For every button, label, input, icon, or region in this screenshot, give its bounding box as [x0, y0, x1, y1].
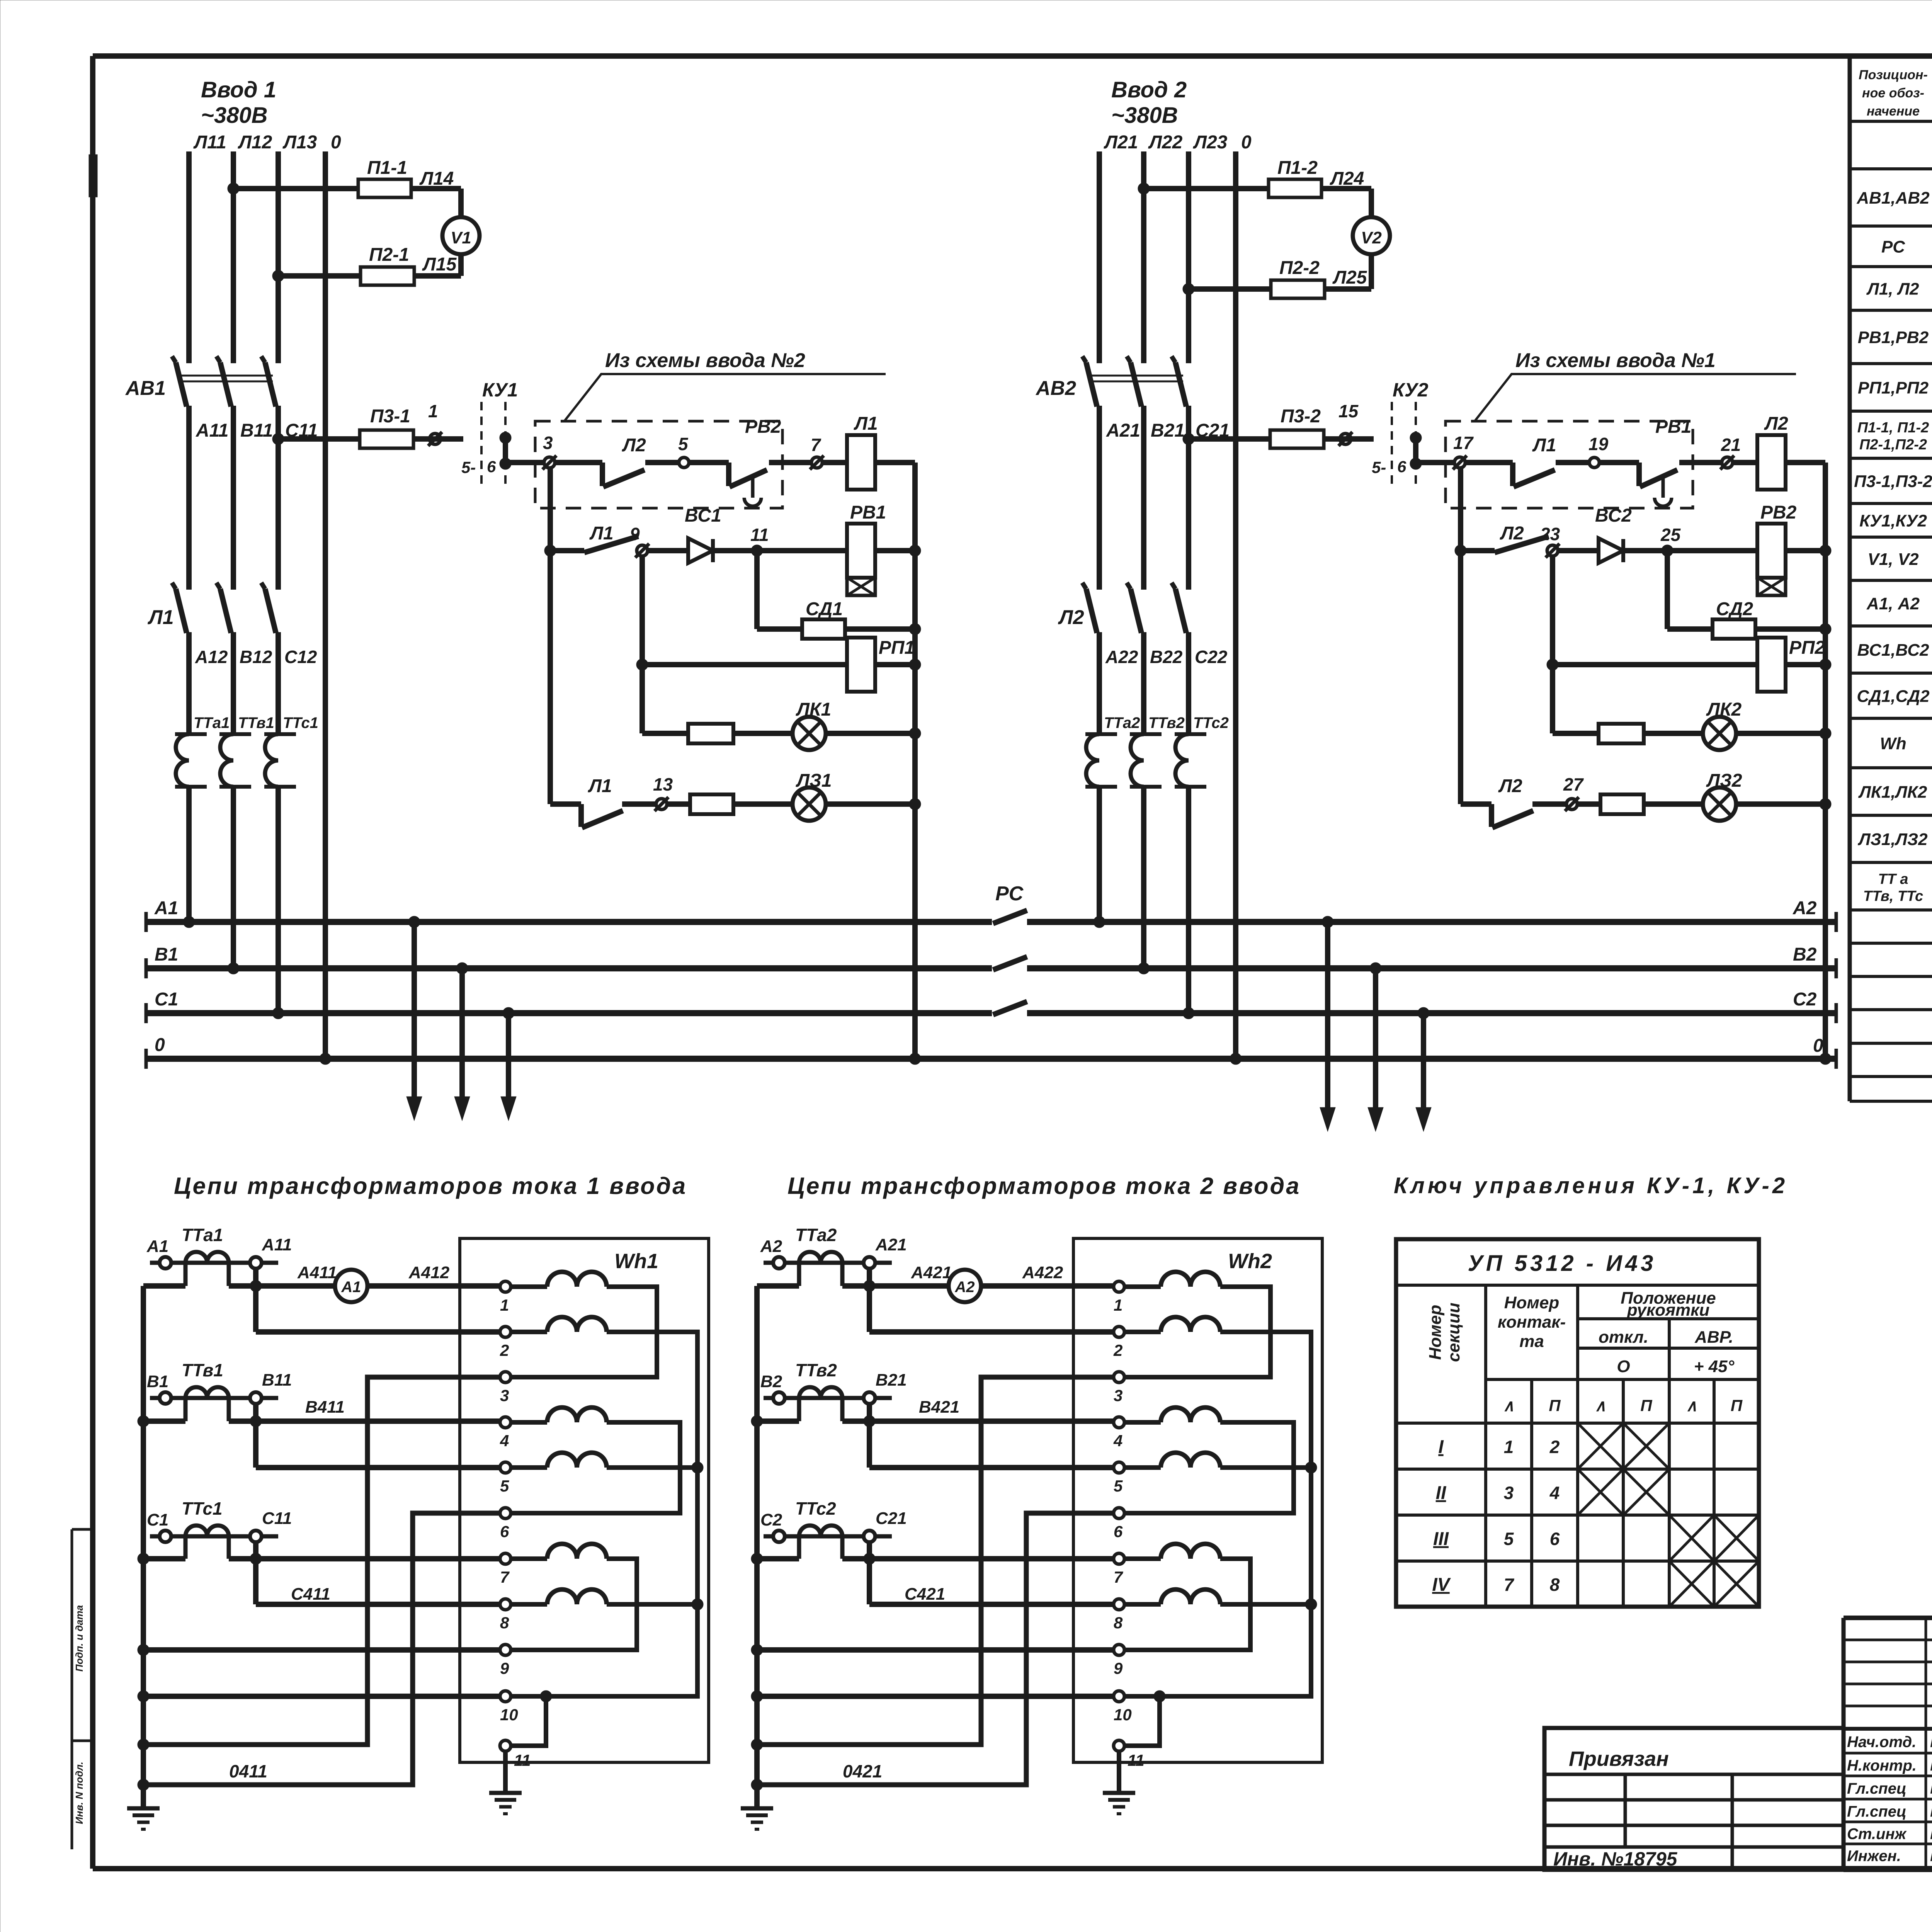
svg-text:2: 2: [500, 1341, 509, 1359]
callout Из схемы ввода №2: [565, 374, 886, 420]
svg-text:3: 3: [543, 433, 553, 453]
svg-text:В12: В12: [240, 647, 272, 667]
svg-text:СД2: СД2: [1716, 599, 1753, 619]
svg-text:РВ2: РВ2: [1760, 502, 1797, 523]
svg-text:Л15: Л15: [422, 254, 457, 275]
T3 return wire: [143, 1377, 500, 1745]
svg-text:Л1: Л1: [147, 606, 174, 629]
svg-text:27: 27: [1563, 774, 1584, 794]
svg-text:П3-2: П3-2: [1281, 406, 1321, 427]
svg-text:ВС2: ВС2: [1595, 505, 1632, 526]
svg-text:КУ1,КУ2: КУ1,КУ2: [1859, 512, 1927, 531]
svg-text:АВ1: АВ1: [125, 377, 166, 400]
fuse П3-1 branch wire: [272, 433, 284, 445]
svg-text:Л22: Л22: [1148, 132, 1183, 153]
fuse П1-1 branch wire: [228, 183, 239, 194]
svg-text:11: 11: [750, 525, 769, 545]
svg-text:С411: С411: [291, 1585, 330, 1604]
fuse П2-2: [1271, 280, 1325, 298]
svg-text:Л23: Л23: [1193, 132, 1228, 153]
voltage tap wire: [867, 1269, 872, 1332]
wire А421: [842, 1283, 949, 1289]
vertical contact 9 down: [639, 556, 645, 733]
svg-text:А412: А412: [408, 1263, 450, 1282]
svg-text:Королева: Королева: [1930, 1824, 1932, 1843]
svg-text:начение: начение: [1867, 104, 1920, 119]
svg-text:А421: А421: [911, 1263, 952, 1282]
vertical node 11 down: [754, 551, 760, 629]
svg-text:А1, А2: А1, А2: [1866, 594, 1920, 613]
svg-text:Подп. и дата: Подп. и дата: [73, 1605, 85, 1672]
red lamp ЛК2 rung: [1553, 731, 1825, 736]
svg-text:Л2: Л2: [1500, 523, 1524, 544]
svg-text:6: 6: [1397, 457, 1406, 476]
svg-text:ТТв2: ТТв2: [795, 1360, 837, 1380]
svg-text:7: 7: [1114, 1568, 1123, 1586]
svg-text:Wh2: Wh2: [1228, 1250, 1272, 1273]
svg-text:РС: РС: [995, 883, 1024, 905]
svg-text:Из схемы ввода №2: Из схемы ввода №2: [605, 349, 805, 372]
svg-text:откл.: откл.: [1599, 1328, 1648, 1347]
fuse П2-1 branch wire: [272, 270, 284, 282]
svg-text:РВ1: РВ1: [850, 502, 886, 523]
svg-text:8: 8: [500, 1614, 509, 1632]
wire phase columns Ввод 1: [189, 151, 325, 1059]
junction dots columns to buses Ввод 1: [183, 916, 195, 928]
voltage tap wire: [867, 1542, 872, 1604]
svg-text:Нач.отд.: Нач.отд.: [1847, 1734, 1916, 1751]
svg-text:∧: ∧: [1686, 1396, 1698, 1415]
svg-text:7: 7: [811, 435, 821, 455]
svg-text:6: 6: [1114, 1522, 1123, 1541]
svg-text:Wh: Wh: [1880, 734, 1906, 753]
neutral bridge 10-11: [511, 1696, 546, 1746]
green lamp ЛЗ2 rung: [1461, 804, 1825, 827]
relay coil РП2 rung: [1547, 659, 1558, 670]
svg-text:Л25: Л25: [1332, 267, 1367, 288]
meter internal current loops: [511, 1287, 680, 1650]
T3 return wire: [757, 1377, 1114, 1745]
vertical contact 23 down: [1550, 556, 1555, 733]
svg-text:9: 9: [630, 524, 640, 544]
svg-text:РП2: РП2: [1789, 638, 1825, 658]
svg-text:В11: В11: [262, 1371, 292, 1389]
svg-text:АВР.: АВР.: [1694, 1328, 1733, 1347]
vertical node 25 down: [1665, 551, 1670, 629]
svg-text:Л12: Л12: [238, 132, 272, 153]
svg-text:ТТс2: ТТс2: [1193, 714, 1229, 731]
svg-text:П2-1: П2-1: [369, 245, 409, 265]
svg-text:А1: А1: [146, 1237, 168, 1256]
svg-text:11: 11: [1128, 1751, 1145, 1769]
privyazan table: [1544, 1728, 1844, 1870]
svg-text:V1: V1: [451, 228, 471, 247]
svg-text:РС: РС: [1881, 238, 1905, 257]
svg-text:Некрасов: Некрасов: [1930, 1756, 1932, 1775]
meter terminals: [500, 1281, 511, 1292]
svg-text:А2: А2: [954, 1279, 975, 1296]
svg-text:В421: В421: [919, 1398, 959, 1417]
relay coil РП1 rung: [636, 659, 648, 670]
svg-text:8: 8: [1114, 1614, 1123, 1632]
svg-text:П: П: [1731, 1396, 1743, 1415]
dashed box from other feeder: [1446, 421, 1693, 508]
resistor for lamp ЛЗ1: [690, 794, 733, 814]
svg-text:С1: С1: [147, 1510, 168, 1529]
wire В421: [842, 1418, 1119, 1424]
meter Wh2 box: [1073, 1238, 1322, 1762]
svg-text:П3-1,П3-2: П3-1,П3-2: [1854, 472, 1932, 491]
svg-text:ЛК1,ЛК2: ЛК1,ЛК2: [1858, 783, 1927, 802]
svg-text:1: 1: [1504, 1437, 1514, 1457]
svg-text:контак-: контак-: [1498, 1313, 1566, 1332]
svg-text:О: О: [1617, 1357, 1630, 1376]
svg-text:В1: В1: [155, 944, 178, 965]
meter ground: [1117, 1751, 1121, 1793]
svg-text:Л1: Л1: [854, 413, 878, 434]
svg-text:С21: С21: [876, 1509, 907, 1528]
svg-text:6: 6: [500, 1522, 509, 1541]
svg-text:УП 5312 - И43: УП 5312 - И43: [1468, 1251, 1656, 1276]
KU table grid: [1396, 1239, 1759, 1607]
voltage tap wire: [867, 1404, 872, 1468]
svg-text:0: 0: [155, 1035, 165, 1055]
green lamp ЛЗ1 rung: [550, 804, 915, 827]
svg-text:23: 23: [1540, 524, 1560, 544]
svg-text:РП1,РП2: РП1,РП2: [1858, 379, 1929, 398]
svg-text:8: 8: [1550, 1575, 1560, 1595]
callout Из схемы ввода №1: [1475, 374, 1796, 420]
svg-text:ЛЗ1,ЛЗ2: ЛЗ1,ЛЗ2: [1857, 830, 1928, 849]
title block grid: [1844, 1618, 1932, 1870]
wire С411: [229, 1556, 505, 1561]
svg-text:С1: С1: [155, 989, 178, 1010]
svg-text:ТТа2: ТТа2: [795, 1225, 837, 1245]
svg-text:Шумилов: Шумилов: [1930, 1802, 1932, 1821]
wire А411: [229, 1283, 335, 1289]
svg-text:П: П: [1640, 1396, 1652, 1415]
svg-text:Л1: Л1: [589, 523, 614, 544]
svg-text:П3-1: П3-1: [370, 406, 410, 427]
T9 wire to star: [757, 1647, 1114, 1653]
svg-text:Гл.спец: Гл.спец: [1847, 1803, 1906, 1820]
T6 return wire: [757, 1513, 1114, 1785]
svg-text:Номер: Номер: [1426, 1305, 1445, 1360]
svg-text:П1-2: П1-2: [1277, 158, 1318, 178]
svg-text:Гл.спец: Гл.спец: [1847, 1780, 1906, 1797]
svg-text:АВ1,АВ2: АВ1,АВ2: [1856, 189, 1930, 207]
svg-text:9: 9: [500, 1659, 509, 1677]
resistor for lamp ЛЗ2: [1600, 794, 1644, 814]
vertical from contact 17: [1458, 468, 1463, 804]
svg-text:А21: А21: [875, 1235, 907, 1254]
meter internal voltage bus: [511, 1332, 697, 1696]
svg-text:5: 5: [1504, 1529, 1514, 1549]
svg-text:ТТв2: ТТв2: [1148, 714, 1185, 731]
svg-text:РП1: РП1: [879, 638, 915, 658]
svg-text:АВ2: АВ2: [1035, 377, 1076, 400]
svg-text:Л1: Л1: [588, 776, 612, 796]
svg-text:КУ2: КУ2: [1393, 379, 1429, 401]
svg-text:1: 1: [428, 401, 438, 421]
svg-text:Ключ управления КУ-1, КУ-2: Ключ управления КУ-1, КУ-2: [1394, 1173, 1788, 1198]
svg-text:С11: С11: [262, 1509, 292, 1528]
meter Wh1 box: [460, 1238, 709, 1762]
svg-text:Л24: Л24: [1330, 168, 1364, 189]
svg-text:10: 10: [500, 1706, 518, 1724]
control rung 2 (rectifier ВС2): [1455, 545, 1466, 556]
svg-text:5: 5: [1114, 1477, 1123, 1495]
star wire vertical: [754, 1286, 760, 1808]
svg-text:А1: А1: [154, 898, 178, 918]
svg-text:А2: А2: [1793, 898, 1817, 918]
svg-text:Привязан: Привязан: [1569, 1747, 1669, 1770]
svg-text:та: та: [1519, 1332, 1544, 1351]
left margin line: [72, 155, 97, 1849]
svg-text:ТТв, ТТс: ТТв, ТТс: [1863, 888, 1923, 905]
svg-text:15: 15: [1338, 401, 1359, 421]
svg-text:9: 9: [1114, 1659, 1123, 1677]
meter terminals: [1114, 1281, 1124, 1292]
svg-text:∧: ∧: [1595, 1396, 1607, 1415]
meter internal voltage bus: [1124, 1332, 1311, 1696]
T10 wire to star: [757, 1694, 1114, 1699]
ground star: [127, 1808, 160, 1829]
svg-text:Из схемы ввода №1: Из схемы ввода №1: [1515, 349, 1716, 372]
svg-text:Номер: Номер: [1504, 1293, 1560, 1312]
voltmeter V1: [442, 217, 480, 254]
svg-text:10: 10: [1114, 1706, 1132, 1724]
svg-text:ТТ а: ТТ а: [1878, 871, 1908, 888]
svg-text:РВ1: РВ1: [1655, 417, 1691, 437]
voltage tap wire: [253, 1269, 259, 1332]
svg-text:5: 5: [500, 1477, 509, 1495]
control rung 1 wire: [1416, 463, 1825, 486]
control rung 2 (rectifier ВС1): [544, 545, 556, 556]
svg-text:КУ1: КУ1: [482, 379, 518, 401]
control rung 1 wire: [505, 463, 915, 486]
svg-text:V1, V2: V1, V2: [1867, 550, 1919, 569]
svg-text:4: 4: [1113, 1432, 1122, 1450]
svg-text:А2: А2: [760, 1237, 782, 1256]
svg-text:РВ1,РВ2: РВ1,РВ2: [1858, 328, 1929, 347]
svg-text:СД1: СД1: [806, 599, 843, 619]
svg-text:0: 0: [1813, 1036, 1823, 1056]
svg-text:Ст.инж: Ст.инж: [1847, 1826, 1907, 1843]
svg-text:7: 7: [500, 1568, 510, 1586]
svg-text:С22: С22: [1195, 647, 1228, 667]
svg-text:I: I: [1438, 1437, 1444, 1458]
resistor for lamp ЛК2: [1599, 724, 1644, 743]
svg-text:В21: В21: [876, 1371, 907, 1389]
svg-text:6: 6: [487, 457, 496, 476]
dashed box from other feeder: [535, 421, 782, 508]
svg-text:11: 11: [514, 1751, 531, 1769]
svg-text:А411: А411: [297, 1263, 337, 1282]
svg-text:21: 21: [1721, 435, 1741, 455]
svg-text:Л1: Л1: [1532, 435, 1556, 456]
svg-text:~380В: ~380В: [201, 103, 268, 128]
meter coils: [511, 1272, 607, 1605]
voltage tap wire: [253, 1542, 259, 1604]
neutral bridge 10-11: [1124, 1696, 1160, 1746]
svg-text:4: 4: [1549, 1483, 1560, 1503]
svg-text:П1-1: П1-1: [367, 158, 407, 178]
vertical from contact 3: [548, 468, 553, 804]
svg-text:Л1, Л2: Л1, Л2: [1866, 280, 1919, 299]
svg-text:С2: С2: [1793, 989, 1817, 1010]
svg-text:В1: В1: [147, 1372, 168, 1391]
svg-text:П: П: [1549, 1396, 1561, 1415]
svg-text:Кулагин: Кулагин: [1930, 1732, 1932, 1751]
fuse П3-1: [360, 430, 413, 448]
svg-text:Инжен.: Инжен.: [1847, 1848, 1901, 1865]
ammeter А1: [335, 1270, 367, 1302]
ground star: [741, 1808, 773, 1829]
svg-text:Л14: Л14: [419, 168, 454, 189]
meter internal current loops: [1124, 1287, 1294, 1650]
svg-text:рукоятки: рукоятки: [1627, 1301, 1710, 1320]
svg-text:В2: В2: [1793, 944, 1817, 965]
svg-text:Л2: Л2: [1058, 606, 1084, 629]
fuse П2-2 branch wire: [1183, 283, 1194, 295]
svg-text:+ 45°: + 45°: [1694, 1357, 1735, 1376]
svg-text:6: 6: [1550, 1529, 1560, 1549]
junction dots columns to buses Ввод 2: [1094, 916, 1105, 928]
component table grid: [1850, 54, 1932, 1101]
svg-text:17: 17: [1453, 433, 1474, 453]
svg-text:1: 1: [1114, 1296, 1122, 1314]
svg-text:П2-2: П2-2: [1279, 258, 1320, 278]
svg-text:В11: В11: [240, 420, 273, 441]
svg-text:Ввод 1: Ввод 1: [201, 77, 276, 102]
svg-text:В21: В21: [1151, 420, 1185, 441]
ammeter А2: [949, 1270, 981, 1302]
svg-text:19: 19: [1588, 434, 1609, 454]
svg-text:~380В: ~380В: [1111, 103, 1178, 128]
svg-text:ное обоз-: ное обоз-: [1862, 86, 1924, 100]
svg-text:А22: А22: [1105, 647, 1138, 667]
meter coils: [1124, 1272, 1220, 1605]
svg-text:С12: С12: [284, 647, 317, 667]
fuse П1-1: [358, 179, 411, 197]
svg-text:ТТв1: ТТв1: [182, 1360, 223, 1380]
svg-text:V2: V2: [1361, 228, 1382, 247]
bus bars: [146, 912, 1836, 1069]
svg-text:ТТв1: ТТв1: [238, 714, 274, 731]
svg-text:∧: ∧: [1503, 1396, 1515, 1415]
svg-text:0: 0: [1241, 132, 1252, 153]
svg-text:А21: А21: [1106, 420, 1140, 441]
svg-text:1: 1: [500, 1296, 509, 1314]
T10 wire to star: [143, 1694, 500, 1699]
svg-text:В411: В411: [305, 1398, 345, 1417]
svg-text:Л21: Л21: [1104, 132, 1138, 153]
T6 return wire: [143, 1513, 500, 1785]
svg-text:А422: А422: [1022, 1263, 1063, 1282]
svg-text:III: III: [1433, 1529, 1449, 1549]
svg-text:Позицион-: Позицион-: [1859, 68, 1928, 82]
svg-text:II: II: [1436, 1483, 1447, 1503]
svg-text:В22: В22: [1150, 647, 1183, 667]
svg-text:IV: IV: [1432, 1575, 1451, 1595]
wire phase columns Ввод 2: [1099, 151, 1236, 1059]
fuse П3-2: [1270, 430, 1324, 448]
svg-text:Цепи трансформаторов тока 2: Цепи трансформаторов тока 2 ввода: [787, 1173, 1301, 1199]
voltmeter V2: [1353, 217, 1390, 254]
svg-text:ТТа2: ТТа2: [1104, 714, 1140, 731]
svg-text:Инв. №18795: Инв. №18795: [1553, 1848, 1678, 1870]
svg-text:Некрасов: Некрасов: [1930, 1779, 1932, 1798]
fuse П1-2 branch wire: [1138, 183, 1150, 194]
svg-text:3: 3: [1504, 1483, 1514, 1503]
svg-text:Цепи трансформаторов тока 1: Цепи трансформаторов тока 1 ввода: [174, 1173, 687, 1199]
svg-text:0421: 0421: [843, 1761, 882, 1781]
svg-text:ВС1,ВС2: ВС1,ВС2: [1857, 641, 1929, 660]
svg-text:2: 2: [1549, 1437, 1560, 1457]
resistor СД2 rung: [1667, 626, 1825, 632]
svg-text:С2: С2: [760, 1510, 782, 1529]
svg-text:А11: А11: [262, 1235, 292, 1254]
star wire vertical: [141, 1286, 146, 1808]
svg-text:13: 13: [653, 774, 673, 794]
svg-text:А11: А11: [196, 420, 229, 441]
svg-text:7: 7: [1504, 1575, 1515, 1595]
svg-text:3: 3: [1114, 1386, 1122, 1405]
svg-text:С421: С421: [905, 1585, 945, 1604]
KU table crosses: [1578, 1423, 1759, 1607]
svg-text:ТТа1: ТТа1: [182, 1225, 223, 1245]
svg-text:Ввод 2: Ввод 2: [1111, 77, 1187, 102]
svg-text:Л2: Л2: [1498, 776, 1522, 796]
red lamp ЛК1 rung: [642, 731, 915, 736]
svg-text:Л2: Л2: [1764, 413, 1788, 434]
svg-text:РВ2: РВ2: [745, 417, 781, 437]
svg-text:25: 25: [1660, 525, 1681, 545]
svg-text:0: 0: [331, 132, 341, 153]
bus outgoing arrows right: [1322, 916, 1333, 928]
control right bus: [912, 463, 918, 1059]
svg-text:Балашова: Балашова: [1930, 1846, 1932, 1865]
svg-text:А12: А12: [195, 647, 228, 667]
voltage tap wire: [253, 1404, 259, 1468]
svg-text:ВС1: ВС1: [685, 505, 721, 526]
svg-text:Л13: Л13: [282, 132, 317, 153]
wire С421: [842, 1556, 1119, 1561]
svg-text:2: 2: [1113, 1341, 1122, 1359]
svg-text:П2-1,П2-2: П2-1,П2-2: [1859, 437, 1927, 453]
bus outgoing arrows left: [408, 916, 420, 928]
svg-text:4: 4: [500, 1432, 509, 1450]
fuse П1-2: [1269, 179, 1321, 197]
meter ground: [503, 1751, 508, 1793]
svg-text:П1-1, П1-2: П1-1, П1-2: [1857, 420, 1929, 436]
fuse П3-2 branch wire: [1183, 433, 1194, 445]
svg-text:0411: 0411: [229, 1761, 267, 1781]
svg-text:СД1,СД2: СД1,СД2: [1857, 687, 1930, 706]
svg-text:В2: В2: [760, 1372, 782, 1391]
svg-text:Wh1: Wh1: [614, 1250, 658, 1273]
resistor for lamp ЛК1: [688, 724, 733, 743]
T9 wire to star: [143, 1647, 500, 1653]
control right bus: [1823, 463, 1828, 1059]
svg-text:3: 3: [500, 1386, 509, 1405]
svg-text:5-: 5-: [461, 458, 476, 476]
resistor СД1 rung: [757, 626, 915, 632]
svg-text:ТТа1: ТТа1: [194, 714, 230, 731]
svg-text:Инв. N подл.: Инв. N подл.: [73, 1762, 85, 1824]
svg-text:Л11: Л11: [193, 132, 226, 153]
